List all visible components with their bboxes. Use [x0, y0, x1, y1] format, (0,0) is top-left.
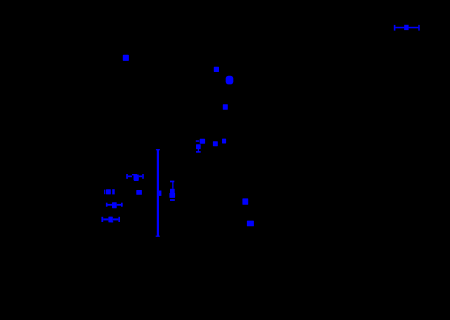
atom N5 label [213, 141, 218, 146]
amine group H-N-H top right [394, 25, 420, 31]
atom N3 label (large) [226, 76, 234, 85]
atom N1 label [123, 55, 129, 61]
amine group H2N left [104, 189, 115, 194]
atom N4 label [223, 104, 228, 109]
N-plus group with bond [196, 139, 205, 153]
atom N7 label [136, 190, 142, 195]
amine group H-N-H left upper [126, 174, 144, 181]
amine group H-N-H left lower [101, 217, 120, 223]
vertical N-H group [169, 181, 175, 201]
atom N9 label [247, 221, 254, 227]
long vertical bond line [156, 149, 162, 237]
atom N2 label [214, 67, 219, 72]
atom N8 label [242, 198, 248, 204]
atom N6 label [222, 139, 226, 144]
amine group H-N-H left middle [106, 202, 123, 208]
